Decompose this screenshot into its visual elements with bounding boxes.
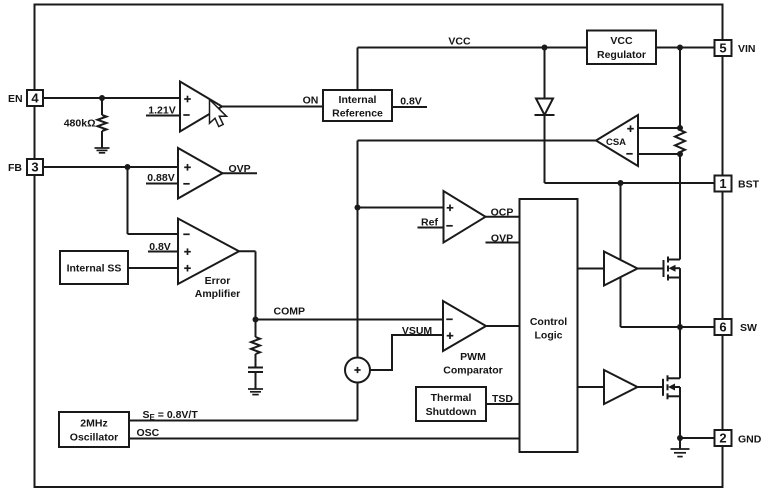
svg-text:1.21V: 1.21V: [148, 105, 175, 117]
svg-text:ON: ON: [303, 95, 319, 107]
svg-text:OVP: OVP: [229, 163, 251, 175]
svg-text:VCC: VCC: [610, 35, 633, 47]
svg-text:Ref: Ref: [421, 217, 438, 229]
svg-text:OSC: OSC: [137, 427, 160, 439]
svg-text:480kΩ: 480kΩ: [64, 118, 96, 130]
svg-text:6: 6: [719, 320, 726, 335]
svg-text:5: 5: [719, 41, 726, 56]
svg-text:Error: Error: [205, 275, 231, 287]
svg-text:Thermal: Thermal: [431, 392, 472, 404]
svg-text:Comparator: Comparator: [443, 365, 503, 377]
svg-text:Regulator: Regulator: [597, 49, 646, 61]
svg-text:SE = 0.8V/T: SE = 0.8V/T: [143, 409, 199, 422]
svg-text:SW: SW: [740, 322, 757, 334]
svg-text:VSUM: VSUM: [402, 325, 433, 337]
svg-text:Logic: Logic: [535, 330, 563, 342]
svg-text:3: 3: [31, 160, 38, 175]
svg-text:4: 4: [31, 91, 39, 106]
svg-text:1: 1: [719, 176, 726, 191]
svg-text:CSA: CSA: [606, 137, 626, 148]
svg-text:2: 2: [719, 431, 726, 446]
svg-text:GND: GND: [738, 434, 762, 446]
svg-text:0.8V: 0.8V: [149, 241, 171, 253]
svg-text:Internal SS: Internal SS: [67, 263, 122, 275]
svg-text:VCC: VCC: [448, 36, 471, 48]
svg-text:Reference: Reference: [332, 108, 383, 120]
svg-text:BST: BST: [738, 179, 760, 191]
svg-text:VIN: VIN: [738, 43, 756, 55]
svg-text:0.8V: 0.8V: [400, 96, 422, 108]
svg-text:Internal: Internal: [339, 94, 377, 106]
svg-text:Oscillator: Oscillator: [70, 432, 118, 444]
svg-text:Amplifier: Amplifier: [195, 288, 241, 300]
svg-text:0.88V: 0.88V: [147, 172, 174, 184]
svg-text:Control: Control: [530, 316, 567, 328]
svg-text:PWM: PWM: [460, 351, 486, 363]
svg-text:TSD: TSD: [492, 393, 513, 405]
svg-text:OCP: OCP: [491, 207, 514, 219]
svg-text:2MHz: 2MHz: [80, 418, 107, 430]
svg-text:Shutdown: Shutdown: [426, 406, 477, 418]
svg-text:EN: EN: [8, 93, 23, 105]
svg-text:COMP: COMP: [274, 306, 306, 318]
svg-text:OVP: OVP: [491, 233, 513, 245]
svg-text:FB: FB: [8, 162, 22, 174]
